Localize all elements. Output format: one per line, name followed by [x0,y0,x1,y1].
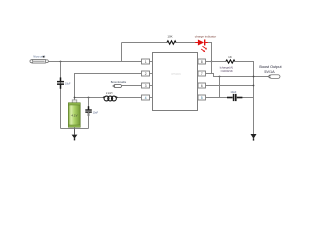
terminal Boost Output [259,65,282,78]
svg-text:7: 7 [201,72,203,76]
wire bottom rail [61,128,89,130]
svg-text:10uF: 10uF [93,111,99,114]
wire pin7 jog to output line [206,74,269,77]
capacitor C1 10uF [57,77,71,88]
wire 1K to ground vertical [235,62,254,135]
wire LED cathode down to pin8 row [208,43,212,62]
node pin6/ground [253,85,255,87]
svg-text:1K: 1K [228,55,232,59]
label Micro USB input [33,56,46,59]
wire top loop vertical x=121.5 [121,43,123,62]
svg-text:5V/1A: 5V/1A [264,70,275,74]
ground GND2 (output) [251,134,257,141]
pin 2 [142,71,153,76]
pin 6 [198,83,206,88]
wire battery- stem [74,127,76,128]
wire pin5 row left segment [206,97,229,99]
wire vout branch vertical x=219.5 [219,77,221,98]
svg-text:=1000/1K: =1000/1K [220,69,233,73]
wire pin8 row right: to 1K [206,61,226,63]
svg-text:charge indicator: charge indicator [195,34,216,38]
pin 7 [198,71,206,76]
svg-text:Boost Output: Boost Output [259,65,282,69]
label charge current note [220,65,234,73]
svg-text:3: 3 [145,84,147,88]
pin 3 [142,83,153,88]
LED D1 charge indicator [195,34,216,52]
svg-text:6: 6 [201,84,203,88]
svg-text:1: 1 [145,60,147,64]
svg-text:8: 8 [201,60,203,64]
capacitor C2 10uF (battery side) [85,98,98,129]
svg-text:4: 4 [145,96,147,100]
wire pin6 row [206,85,254,87]
battery BT1 [68,100,80,127]
wire main VIN rail y=61.5 [48,61,141,63]
pin 8 [198,59,206,64]
svg-text:10uF: 10uF [230,90,236,94]
node junction pin8/LED [211,61,213,63]
svg-text:IP5306: IP5306 [171,72,181,76]
terminal Boost Enable [111,80,127,88]
svg-text:2: 2 [145,72,147,76]
resistor R1 10K [167,35,176,45]
pin 4 [142,95,153,100]
fuse F1 (battery input) [30,59,48,63]
wire top loop horizontal y=42.5 [122,42,167,44]
svg-text:10K: 10K [167,35,172,39]
resistor R2 1K [226,55,235,63]
inductor L1 2.2uH [103,92,118,101]
wire pin8-pin7 tie [211,62,213,74]
wire inductor row y=97.5 [75,97,104,99]
wire battery+ to pin2 [75,74,142,101]
wire cap1 vertical [60,62,62,129]
pin 5 [198,95,206,100]
svg-text:Boost Enable: Boost Enable [111,80,127,84]
node VIN junction at x=60.5 [60,61,62,63]
node battery+/inductor junction [74,97,76,99]
svg-text:4.1V: 4.1V [71,113,77,117]
svg-text:2.2uH: 2.2uH [106,92,113,95]
node cap2 junction [88,97,90,99]
svg-text:10uF: 10uF [65,83,71,86]
node output/ground junction [253,76,255,78]
capacitor C3 10uF (output) [227,90,242,101]
svg-text:5: 5 [201,96,203,100]
wire Boost Enable to pin3 [122,85,142,87]
node vout branch [219,76,221,78]
pin 1 [142,59,153,64]
ground GND1 (battery) [72,129,78,141]
IC U1 body [153,53,198,111]
wire cap3 to ground vertical [242,97,254,99]
